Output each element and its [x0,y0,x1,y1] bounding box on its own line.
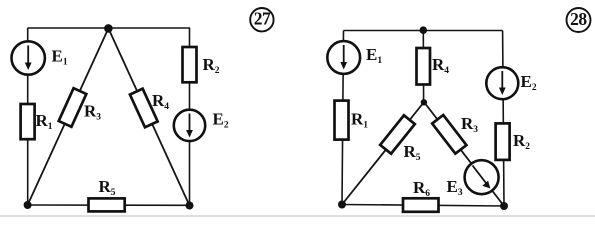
source E1 circuit 28 [327,41,360,74]
resistor R3 circuit 27 [59,88,87,127]
resistor R1 circuit 27 [21,104,35,139]
svg-text:R2: R2 [203,55,220,76]
svg-text:R1: R1 [36,111,53,132]
node apex circuit 27 [104,24,113,33]
faint page rule at bottom [0,215,595,217]
svg-text:E1: E1 [52,47,68,68]
svg-text:R6: R6 [413,178,430,199]
wire top horizontal circuit 28 [344,30,503,32]
svg-text:E1: E1 [366,45,382,66]
resistor R3 circuit 28 [432,115,466,154]
resistor R1 circuit 28 [335,101,349,140]
node bottom-right circuit 28 [500,202,508,210]
node bottom-left circuit 28 [338,201,346,209]
svg-text:E2: E2 [521,72,537,93]
svg-text:R2: R2 [513,131,530,152]
svg-text:R4: R4 [152,91,169,112]
svg-text:28: 28 [570,9,587,29]
svg-text:27: 27 [254,9,271,29]
wire right branch circuit 27 [189,28,191,206]
source E1 circuit 27 [12,41,45,74]
node bottom-left circuit 27 [24,201,32,209]
svg-text:E2: E2 [213,110,229,131]
resistor R4 circuit 28 [417,48,431,85]
svg-text:E3: E3 [447,177,463,198]
wire top horizontal circuit 27 [28,27,191,29]
resistor R5 circuit 28 [380,115,415,153]
svg-text:R1: R1 [351,110,368,131]
source E2 circuit 28 [486,67,518,99]
node bottom-right circuit 27 [186,202,194,210]
wire middle branch circuit 28 [422,31,424,103]
badge 28 [567,8,591,32]
wire bottom circuit 27 [28,204,190,206]
svg-text:R3: R3 [461,114,478,135]
svg-text:R4: R4 [432,55,449,76]
wire right branch circuit 28 [503,31,504,207]
svg-text:R3: R3 [84,102,101,123]
resistor R2 circuit 27 [183,47,197,82]
wire left branch circuit 28 [342,31,344,205]
resistor R4 circuit 27 [130,89,158,128]
wire bottom circuit 28 [342,205,504,207]
wire left branch circuit 27 [27,28,29,205]
svg-text:R5: R5 [404,142,421,163]
node junction circuit 28 [421,99,427,105]
resistor R5 circuit 27 [89,198,125,211]
badge 27 [250,8,273,31]
resistor R2 circuit 28 [496,123,510,159]
wire diagonal R5 branch circuit 28 [342,102,424,205]
svg-text:R5: R5 [99,177,116,198]
source E3 circuit 28 [465,160,499,194]
wire diagonal R3 E3 branch circuit 28 [424,102,504,206]
source E2 circuit 27 [174,110,205,141]
node top middle circuit 28 [420,26,428,34]
wire diagonal R3 branch circuit 27 [28,28,109,205]
resistor R6 circuit 28 [403,198,439,212]
wire diagonal R4 branch circuit 27 [108,28,189,205]
